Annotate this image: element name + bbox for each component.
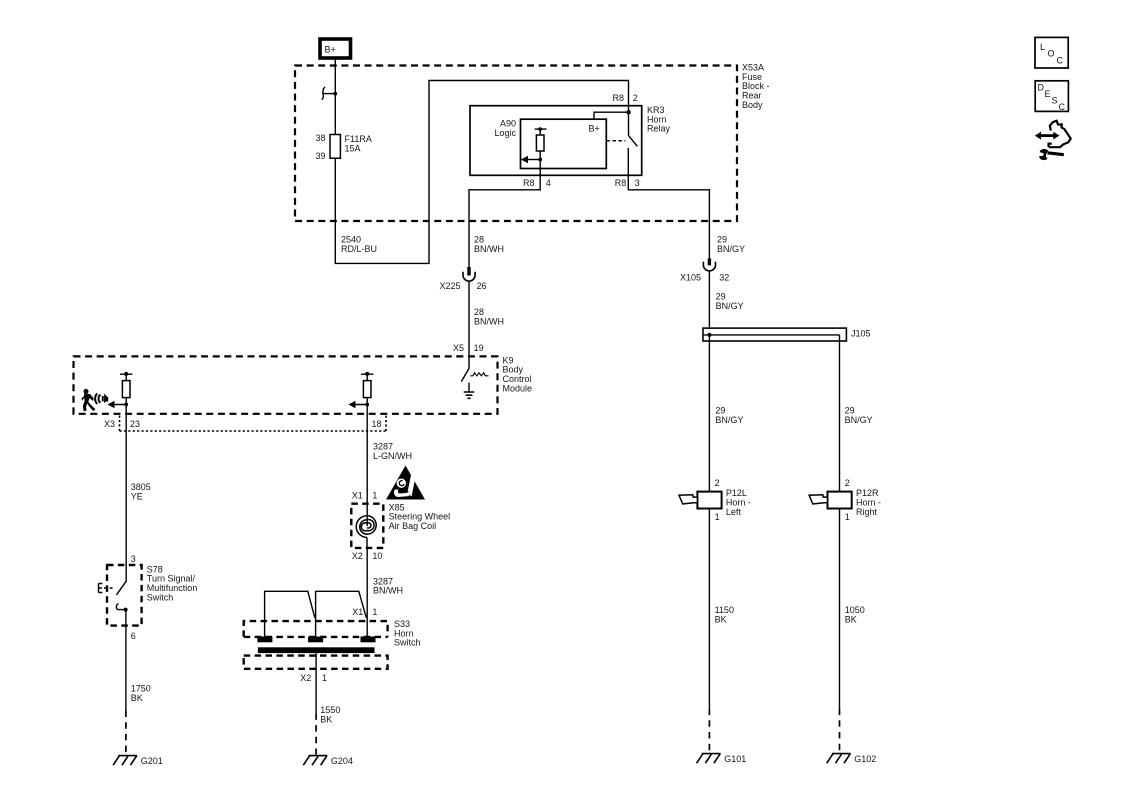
horn switch S33 contact blades [265,591,367,636]
svg-text:R8: R8 [523,178,535,188]
relay switch contacts [628,112,637,175]
wire 3805 YE to S78 [125,405,127,566]
steering wheel air bag coil X85 dashed box [351,504,383,548]
clockspring spiral [366,504,368,526]
ground G204 [303,756,327,766]
horn icon speaker [102,396,104,401]
relay coil in A90 [535,127,547,159]
wire relay pin3 to X105 [628,175,709,258]
wire 1050 BK to G102 [839,509,841,709]
connector X225 pin 26 [463,267,475,357]
connector repair icon outline [1049,121,1071,148]
K9 left horn-switch sense input [108,372,133,408]
S33 contact pads [257,637,272,643]
svg-text:19: 19 [474,343,484,353]
DESC reference box [1035,81,1068,112]
wire 3287 L-GN/WH to air bag coil [366,405,368,504]
horn right P12R [809,492,852,509]
fuse F11RA 15A [330,135,340,159]
svg-text:X2: X2 [352,551,363,561]
S33 common bar [258,647,375,653]
coil output arrow [527,159,540,161]
turn signal switch S78 dashed box [107,565,142,626]
horn sounding icon person [84,389,89,394]
svg-text:O: O [1048,49,1055,59]
svg-text:39: 39 [315,151,325,161]
svg-text:E: E [1045,89,1051,99]
S78 switch blade [117,565,127,595]
horn switch S33 lower dashed box [244,656,388,669]
fuse block X53A dashed box [295,66,737,222]
horn switch S33 upper dashed box [244,621,388,637]
svg-text:B+: B+ [589,124,600,134]
relay actuator dashed link [607,140,626,142]
svg-text:38: 38 [315,133,325,143]
node relay pin2 junction [626,110,630,114]
connector X105 pin 32 [703,258,715,328]
svg-text:32: 32 [719,272,729,282]
svg-text:X105: X105 [680,272,701,282]
svg-text:X1: X1 [352,607,363,617]
wire 2540 from fuse up to relay pin 2 [335,81,628,264]
double arrow [1035,132,1060,140]
svg-text:D: D [1038,83,1045,93]
body control module K9 dashed box [74,356,498,413]
svg-text:6: 6 [131,631,136,641]
svg-text:B+: B+ [325,45,336,55]
svg-text:10: 10 [372,551,382,561]
svg-text:Logic: Logic [494,128,516,138]
svg-text:R8: R8 [612,93,624,103]
svg-text:S: S [1052,96,1058,106]
svg-text:G204: G204 [331,756,353,766]
wire from J105 to left horn [708,335,710,492]
wire pin2 to B+ feed of logic [594,106,629,120]
air bag warning triangle [386,466,425,500]
connector icon inner step [1049,144,1052,147]
svg-text:X3: X3 [104,419,115,429]
svg-text:2: 2 [715,478,720,488]
svg-text:X2: X2 [300,673,311,683]
svg-text:X1: X1 [352,490,363,500]
svg-text:1: 1 [372,607,377,617]
svg-text:1: 1 [372,490,377,500]
svg-text:L: L [1040,42,1045,52]
svg-text:4: 4 [546,178,551,188]
wire 1150 BK to G101 [708,509,710,709]
svg-text:1: 1 [845,512,850,522]
ground G201 [113,756,137,766]
K9 right horn-switch sense input [349,372,374,408]
svg-text:J105: J105 [851,329,871,339]
svg-text:2: 2 [633,93,638,103]
wire 3287 BN/WH to horn switch [366,548,368,637]
horn icon sound waves [95,394,100,404]
relay KR3 box [470,106,642,176]
svg-text:3: 3 [131,554,136,564]
ground G102 [827,754,851,764]
svg-text:G101: G101 [724,754,746,764]
white occupant figure inside triangle [394,490,409,497]
A90 logic box [521,119,607,168]
clip symbol on B+ wire [324,93,336,95]
svg-text:G201: G201 [141,756,163,766]
S78 actuator E linkage [99,584,103,593]
wire 1550 BK to G204 [315,653,317,713]
svg-text:18: 18 [372,419,382,429]
svg-text:2: 2 [845,478,850,488]
horn left P12L [679,492,722,509]
svg-text:G102: G102 [854,754,876,764]
ground G101 [697,754,721,764]
svg-text:C: C [1057,56,1064,66]
connector X3 dotted box [120,416,387,432]
svg-text:26: 26 [477,281,487,291]
ground symbol inside K9 [464,383,475,399]
wrench icon [1039,149,1064,160]
svg-text:R8: R8 [615,178,627,188]
svg-text:1: 1 [715,512,720,522]
S78 lower contact [116,604,125,610]
LOC reference box [1035,37,1068,68]
svg-text:X5: X5 [453,343,464,353]
svg-text:1: 1 [322,673,327,683]
battery feed B+ [320,39,351,58]
K9 low-side switch on pin 19 [461,356,469,381]
wire from J105 to right horn [839,335,841,492]
svg-text:X225: X225 [439,281,460,291]
svg-text:3: 3 [635,178,640,188]
wire B+ to fuse [334,59,336,135]
svg-text:C: C [1059,102,1066,112]
wire logic output to X225 [469,160,540,267]
wire 1750 BK to G201 [125,610,127,711]
splice pack J105 [703,328,846,341]
K9 driver squiggle [470,373,488,376]
svg-text:23: 23 [130,419,140,429]
